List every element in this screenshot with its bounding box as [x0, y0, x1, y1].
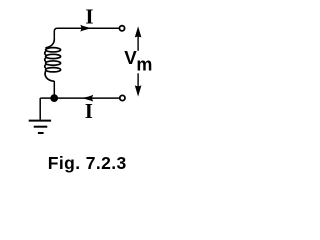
svg-text:V: V: [124, 47, 137, 68]
svg-text:Fig. 7.2.3: Fig. 7.2.3: [48, 153, 127, 173]
svg-text:I: I: [85, 5, 93, 29]
svg-text:m: m: [136, 55, 152, 75]
svg-text:I: I: [85, 99, 93, 123]
